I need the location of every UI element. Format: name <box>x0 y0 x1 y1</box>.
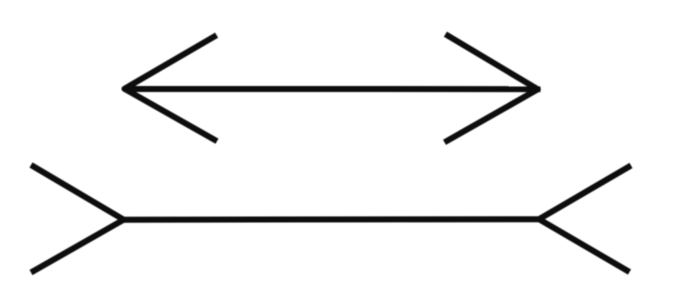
top-left arrowhead (inward fins) <box>125 35 218 141</box>
bottom-left outward fins <box>31 165 124 273</box>
bottom shaft line <box>124 216 540 223</box>
top shaft line <box>124 86 541 92</box>
bottom-right outward fins <box>539 166 631 273</box>
top-right arrowhead (inward fins) <box>445 34 538 142</box>
